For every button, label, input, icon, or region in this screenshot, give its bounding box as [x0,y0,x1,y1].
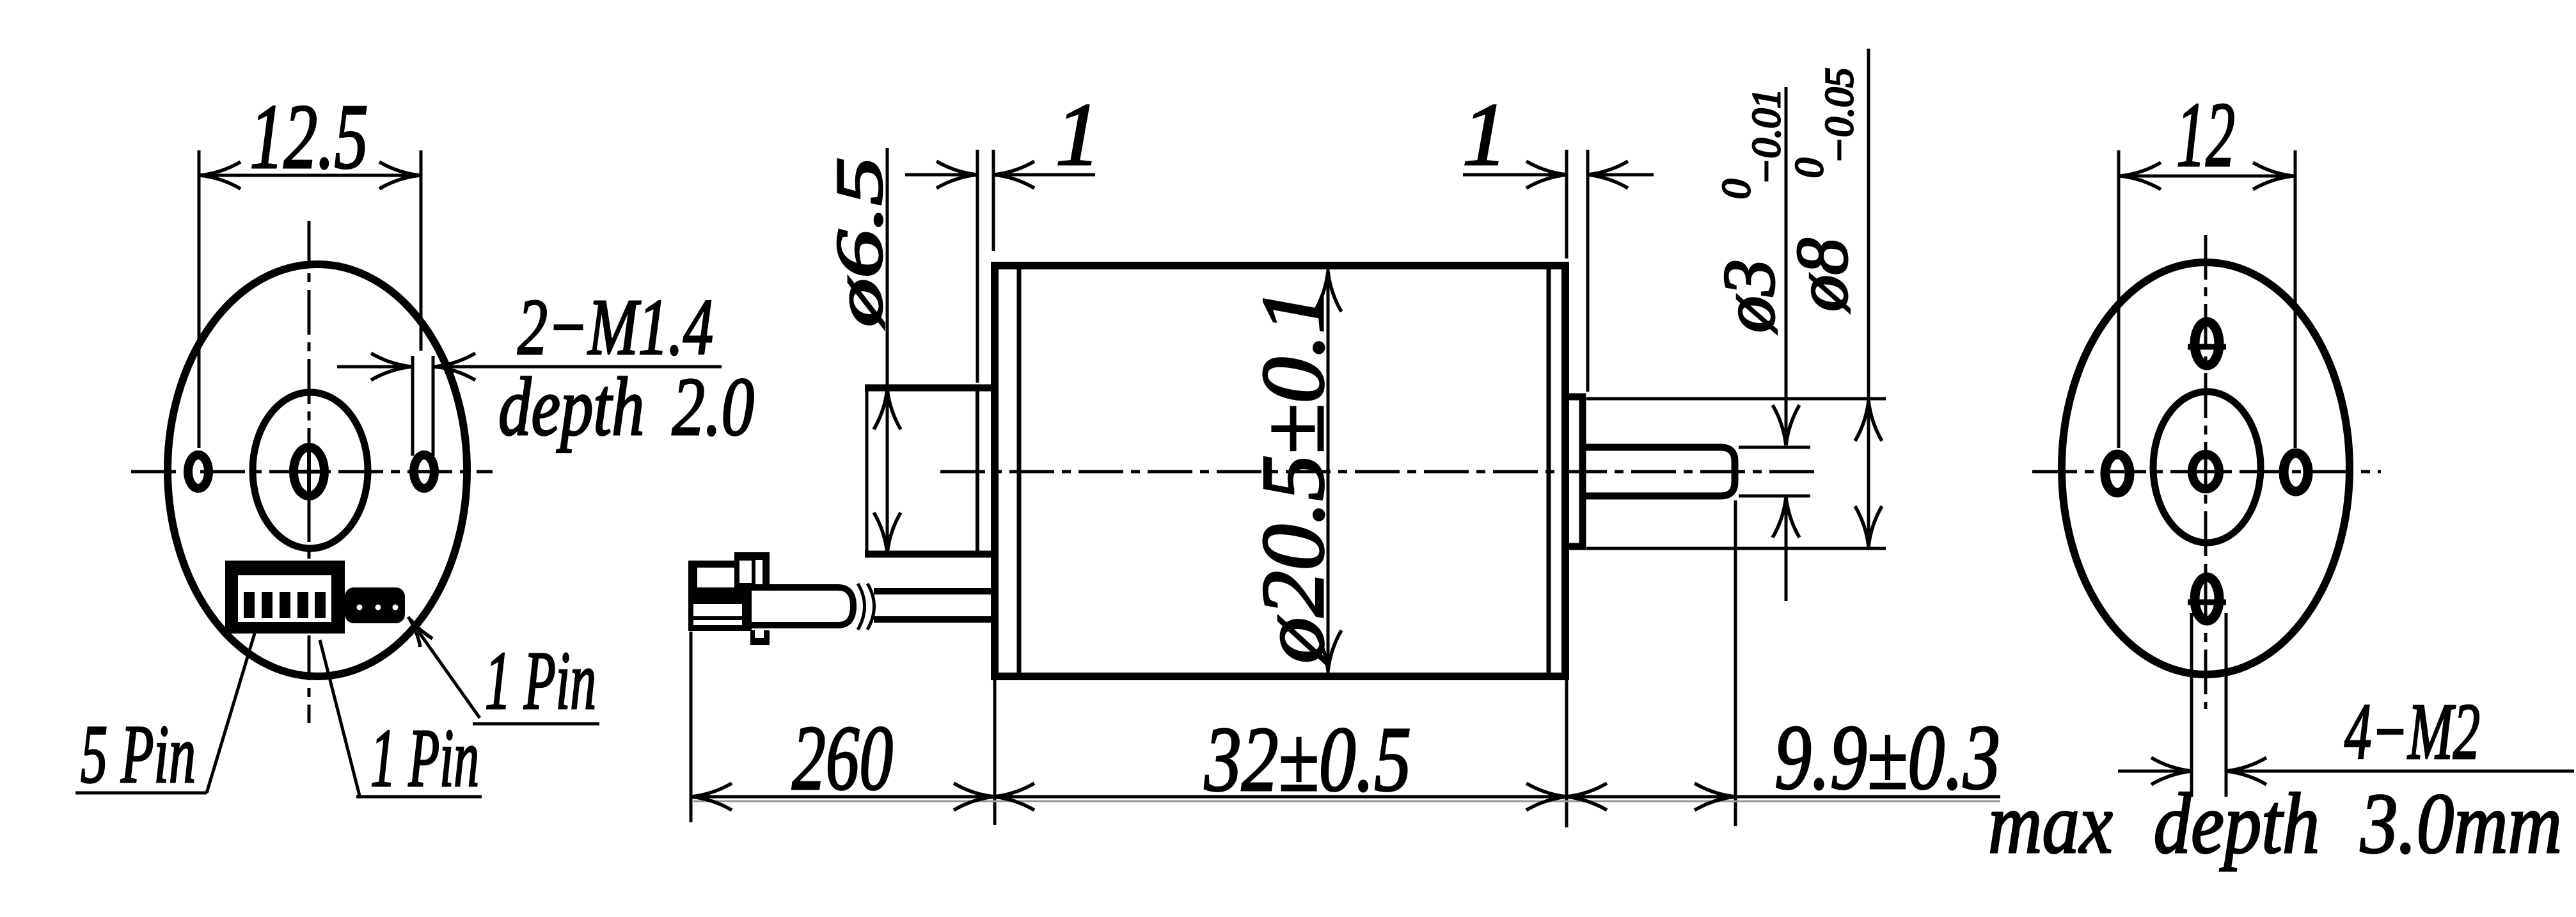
cable connector foot [750,630,770,645]
svg-text:4−M2: 4−M2 [2344,688,2480,776]
dimension 9.9 extension right [1734,500,1737,826]
front view mounting hole right [414,455,434,488]
motor body outline [991,262,999,680]
front view vertical centerline [308,221,311,723]
front view boss circle [253,392,368,548]
dimension 12 line [2119,175,2295,178]
right bearing boss [1565,394,1586,401]
callout 4-M2 arrows [2118,770,2191,773]
rear view hole top [2195,322,2219,365]
cable first segment [742,587,853,625]
cable connector housing [688,561,752,631]
dimension 12.5 extension line right [420,150,423,351]
cable second segment [874,588,991,594]
svg-text:1: 1 [1055,85,1100,184]
dimension phi3 extensions [1739,446,1810,449]
svg-text:depth 2.0: depth 2.0 [498,361,754,453]
dimension 1 left line [905,173,976,177]
rear view center hole [2192,454,2219,489]
dimension 1 right line [1463,173,1566,177]
dimension phi8 line [1867,49,1870,548]
body left extension [993,680,997,825]
svg-text:2−M1.4: 2−M1.4 [518,283,713,372]
callout 4-M2 extensions [2190,613,2193,797]
svg-text:ø6.5: ø6.5 [823,157,896,329]
motor centerline [940,470,1817,474]
dimension 12.5 extension line left [198,150,201,448]
left bearing stub [865,385,995,392]
front view outer face circle [168,264,467,676]
leader 1 Pin right [408,617,480,718]
svg-text:12.5: 12.5 [250,86,368,188]
front view horizontal centerline [131,470,493,474]
rear view outer circle [2062,262,2350,674]
dimension 12.5 line [199,174,421,177]
svg-text:9.9±0.3: 9.9±0.3 [1774,706,2000,809]
dimension 32 extension right [1565,680,1569,827]
dimension 1 right extensions [1565,150,1569,259]
svg-text:1: 1 [1462,85,1507,184]
dimension 260 extension left [690,632,693,822]
svg-text:max depth 3.0mm: max depth 3.0mm [1988,776,2562,872]
shaft [1586,447,1735,496]
front view center shaft hole [294,447,324,496]
dimension phi6.5 line [886,148,889,552]
svg-text:1 Pin: 1 Pin [485,635,596,727]
front view connector 3-pin plug [345,587,405,623]
rear view hole left [2105,454,2130,493]
dimension phi20.5 line [1327,269,1330,673]
dimension phi8 extensions [1586,397,1886,401]
svg-text:32±0.5: 32±0.5 [1204,708,1411,811]
dimension 12 extensions [2117,150,2121,448]
svg-text:ø20.5±0.1: ø20.5±0.1 [1244,287,1343,665]
left end cap edge [976,385,979,557]
motor body inner line right [1547,269,1551,673]
dimension 1 left extensions [976,150,979,383]
front view connector body [225,561,345,634]
svg-text:5 Pin: 5 Pin [81,708,196,801]
cable break symbol [858,584,865,630]
svg-text:12: 12 [2176,84,2235,186]
bottom dimension line [691,795,2000,799]
rear view vertical centerline [2204,235,2208,709]
front view mounting hole left [188,455,209,488]
cable connector latch [734,552,770,589]
rear view hole right [2284,453,2308,491]
dimension phi3 line [1785,87,1788,444]
rear view horizontal centerline [2032,470,2381,474]
svg-text:260: 260 [792,707,893,809]
leader 1 Pin bottom [320,640,360,798]
leader 5 Pin [207,634,255,793]
rear view hole bottom [2195,577,2219,621]
motor body inner line left [1017,269,1022,673]
svg-text:1 Pin: 1 Pin [370,712,479,804]
callout 2-M1.4 arrows [337,365,410,369]
rear view boss circle [2153,392,2261,543]
callout 2-M1.4 extension lines [411,356,415,456]
